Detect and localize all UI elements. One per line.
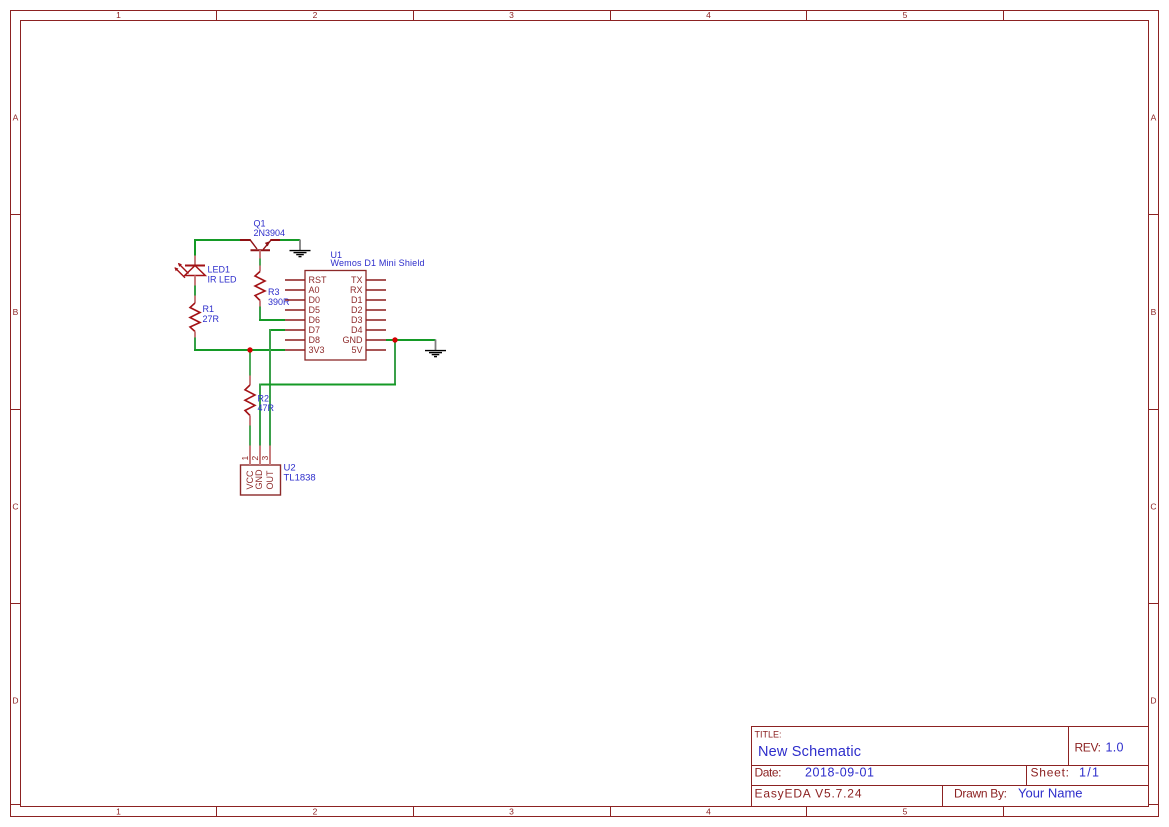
- svg-text:5V: 5V: [351, 345, 362, 355]
- svg-text:TX: TX: [351, 275, 363, 285]
- wire 3V3 rail horizontal: [195, 349, 285, 350]
- U2 pin 2: [259, 446, 261, 466]
- wire GND net down to U2 GND: [259, 384, 261, 446]
- U2 pin 1: [249, 446, 251, 466]
- Q1 base pin: [259, 250, 261, 258]
- svg-text:D7: D7: [309, 325, 321, 335]
- wire top-left from Q1 collector to LED1: [195, 240, 241, 256]
- svg-text:3V3: 3V3: [309, 345, 325, 355]
- svg-text:C: C: [12, 502, 18, 512]
- R3 labels: [268, 287, 290, 307]
- svg-text:OUT: OUT: [265, 470, 275, 490]
- ground (Q1 emitter): [290, 240, 311, 257]
- svg-text:Sheet:: Sheet:: [1031, 766, 1070, 780]
- U1 right pin names: [343, 275, 364, 355]
- U2 labels: [284, 463, 316, 484]
- svg-text:REV:: REV:: [1075, 741, 1102, 755]
- svg-text:B: B: [1151, 307, 1157, 317]
- LED1 cathode bar: [185, 265, 205, 267]
- svg-text:2018-09-01: 2018-09-01: [805, 766, 874, 780]
- wire D7 pin horizontal: [269, 329, 285, 331]
- svg-text:LED1: LED1: [208, 265, 231, 275]
- svg-text:1: 1: [240, 456, 250, 461]
- wire R2 to U2 VCC: [249, 426, 251, 446]
- svg-text:A0: A0: [309, 285, 320, 295]
- svg-text:4: 4: [706, 807, 711, 817]
- svg-text:Date:: Date:: [755, 766, 782, 780]
- R2 labels: [258, 393, 275, 413]
- svg-text:A: A: [13, 113, 19, 123]
- svg-text:A: A: [1151, 113, 1157, 123]
- LED1 triangle: [185, 266, 206, 276]
- svg-text:D4: D4: [351, 325, 363, 335]
- svg-text:TL1838: TL1838: [284, 473, 316, 484]
- svg-text:1: 1: [116, 807, 121, 817]
- svg-text:RST: RST: [309, 275, 328, 285]
- title block frame: [752, 727, 1149, 807]
- IC U1 Wemos D1 Mini Shield: [285, 271, 386, 361]
- title block texts: [755, 730, 1124, 801]
- svg-text:B: B: [13, 307, 19, 317]
- wire LED1 to R1: [194, 286, 196, 296]
- svg-text:1: 1: [116, 10, 121, 20]
- svg-text:Q1: Q1: [254, 218, 266, 228]
- svg-text:1/1: 1/1: [1079, 766, 1099, 780]
- wire GND pin to ground: [386, 339, 436, 341]
- svg-text:5: 5: [903, 807, 908, 817]
- svg-text:390R: 390R: [268, 297, 290, 307]
- svg-text:3: 3: [509, 807, 514, 817]
- LED1 bottom pin: [194, 276, 196, 286]
- IC U2 TL1838: [240, 446, 281, 496]
- LED1 light arrow 2: [175, 268, 185, 278]
- wire Q1 base to R3: [259, 259, 261, 266]
- LED1 labels: [208, 265, 238, 285]
- LED1 light arrow 1: [179, 264, 189, 274]
- svg-text:GND: GND: [254, 469, 264, 490]
- frame row letters left: [12, 113, 18, 706]
- svg-text:1.0: 1.0: [1106, 741, 1124, 755]
- svg-text:47R: 47R: [258, 403, 275, 413]
- frame column numbers bottom: [116, 807, 908, 817]
- svg-text:2N3904: 2N3904: [254, 228, 286, 238]
- U1 labels: [331, 250, 425, 268]
- wire GND net horizontal return: [259, 384, 396, 386]
- U2 pin 3: [269, 446, 271, 466]
- wire GND net vertical from junction: [394, 340, 396, 385]
- svg-text:New Schematic: New Schematic: [758, 744, 861, 760]
- svg-text:D: D: [12, 696, 18, 706]
- svg-text:D: D: [1150, 696, 1156, 706]
- wire junction to R2: [249, 350, 251, 376]
- U1 left pins: [285, 280, 305, 350]
- svg-text:R1: R1: [203, 304, 215, 314]
- resistor R1: [190, 296, 200, 338]
- wire R3 to D6 pin vertical: [259, 307, 261, 321]
- svg-text:2: 2: [313, 807, 318, 817]
- svg-text:D6: D6: [309, 315, 321, 325]
- svg-text:GND: GND: [343, 335, 364, 345]
- svg-text:EasyEDA V5.7.24: EasyEDA V5.7.24: [755, 787, 862, 801]
- U1 right pins: [366, 280, 386, 350]
- svg-text:D5: D5: [309, 305, 321, 315]
- svg-text:2: 2: [250, 456, 260, 461]
- transistor Q1: [240, 240, 280, 251]
- Q1 labels: [254, 218, 286, 238]
- junction node GND: [392, 337, 397, 342]
- wire Q1 emitter to ground: [280, 239, 301, 241]
- svg-text:R3: R3: [268, 287, 280, 297]
- svg-text:Wemos D1 Mini Shield: Wemos D1 Mini Shield: [331, 258, 425, 268]
- resistor R2: [245, 376, 255, 426]
- svg-text:D2: D2: [351, 305, 363, 315]
- svg-text:Drawn By:: Drawn By:: [954, 787, 1007, 801]
- frame column numbers top: [116, 10, 908, 20]
- svg-text:D8: D8: [309, 335, 321, 345]
- svg-text:C: C: [1150, 502, 1156, 512]
- wire R1 to 3V3 rail: [194, 338, 196, 351]
- svg-text:RX: RX: [350, 285, 363, 295]
- LED1 top pin: [194, 256, 196, 266]
- svg-text:2: 2: [313, 10, 318, 20]
- LED1 IR LED: [174, 256, 205, 286]
- U1 left pin names: [309, 275, 328, 355]
- resistor R3: [255, 266, 265, 307]
- frame row letters right: [1150, 113, 1156, 706]
- svg-text:TITLE:: TITLE:: [755, 730, 782, 740]
- svg-text:3: 3: [509, 10, 514, 20]
- ground (GND net): [425, 340, 446, 357]
- svg-text:IR LED: IR LED: [208, 274, 238, 284]
- wire R3 to D6 pin horizontal: [259, 319, 285, 321]
- svg-text:D0: D0: [309, 295, 321, 305]
- junction node 3V3/R2: [247, 347, 252, 352]
- svg-text:4: 4: [706, 10, 711, 20]
- svg-text:D1: D1: [351, 295, 363, 305]
- svg-text:5: 5: [903, 10, 908, 20]
- svg-text:27R: 27R: [203, 314, 220, 324]
- wire D7 to U2 OUT vertical: [269, 329, 271, 446]
- R1 labels: [203, 304, 220, 324]
- svg-text:3: 3: [260, 456, 270, 461]
- svg-text:Your Name: Your Name: [1018, 786, 1083, 801]
- svg-text:D3: D3: [351, 315, 363, 325]
- svg-text:R2: R2: [258, 393, 270, 403]
